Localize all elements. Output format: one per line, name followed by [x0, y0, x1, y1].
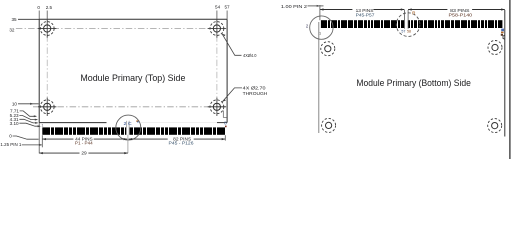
- svg-text:P58-P140: P58-P140: [449, 13, 473, 19]
- svg-text:P45 - P126: P45 - P126: [169, 141, 194, 147]
- svg-text:57: 57: [224, 4, 230, 9]
- svg-text:1: 1: [319, 31, 321, 35]
- svg-text:0: 0: [37, 5, 40, 10]
- svg-text:4X Ø2.70: 4X Ø2.70: [243, 85, 266, 91]
- svg-text:57: 57: [401, 29, 405, 33]
- svg-text:Module Primary (Top) Side: Module Primary (Top) Side: [80, 72, 185, 83]
- svg-text:2 C: 2 C: [124, 121, 133, 126]
- svg-text:1.25 PIN 1: 1.25 PIN 1: [0, 142, 21, 147]
- svg-text:1: 1: [42, 123, 44, 127]
- svg-text:29: 29: [81, 151, 87, 157]
- svg-text:10: 10: [12, 102, 18, 107]
- svg-text:1.00 PIN 2: 1.00 PIN 2: [281, 4, 307, 10]
- svg-text:54: 54: [215, 4, 221, 9]
- svg-text:0: 0: [9, 134, 12, 139]
- svg-text:8: 8: [224, 121, 227, 126]
- svg-text:THROUGH: THROUGH: [243, 91, 268, 97]
- svg-text:P1 - P44: P1 - P44: [75, 141, 93, 147]
- svg-text:P45-P57: P45-P57: [356, 13, 375, 19]
- svg-text:3.10: 3.10: [10, 121, 19, 126]
- svg-text:Module Primary (Bottom) Side: Module Primary (Bottom) Side: [356, 78, 471, 88]
- svg-text:35: 35: [11, 17, 17, 22]
- svg-text:4XØ4.0: 4XØ4.0: [243, 53, 257, 58]
- svg-text:58: 58: [407, 29, 411, 33]
- svg-text:2.5: 2.5: [46, 5, 53, 10]
- svg-text:32: 32: [9, 27, 15, 32]
